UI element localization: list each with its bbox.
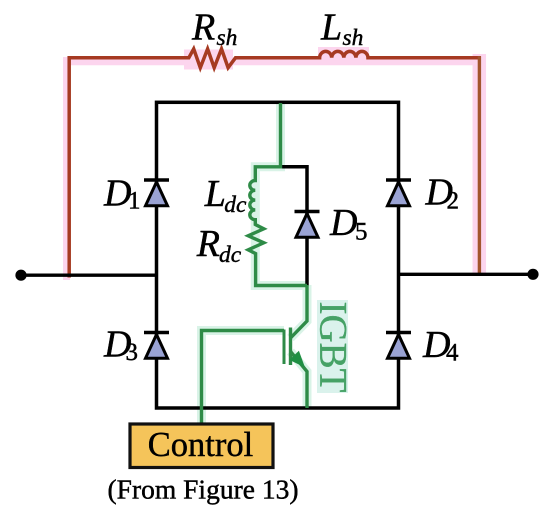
svg-text:Control: Control <box>148 426 253 464</box>
svg-text:1: 1 <box>128 188 141 215</box>
svg-text:4: 4 <box>446 340 459 367</box>
svg-text:R: R <box>196 223 220 265</box>
svg-text:L: L <box>204 173 226 215</box>
svg-text:L: L <box>320 7 342 49</box>
svg-text:5: 5 <box>355 219 368 246</box>
svg-text:dc: dc <box>219 242 242 268</box>
svg-text:3: 3 <box>126 339 139 366</box>
svg-text:R: R <box>191 7 215 49</box>
svg-text:D: D <box>329 202 357 244</box>
svg-text:sh: sh <box>343 25 364 51</box>
svg-text:2: 2 <box>447 188 460 215</box>
svg-text:IGBT: IGBT <box>312 302 355 393</box>
svg-text:(From Figure 13): (From Figure 13) <box>108 474 299 505</box>
svg-text:dc: dc <box>224 192 247 218</box>
svg-text:sh: sh <box>217 25 238 51</box>
